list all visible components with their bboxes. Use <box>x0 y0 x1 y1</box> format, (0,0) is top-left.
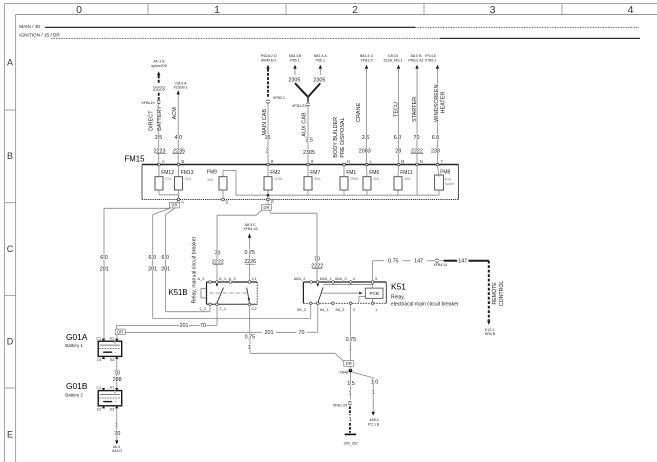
svg-text:Relay, manual circuit breaker: Relay, manual circuit breaker <box>191 236 197 303</box>
svg-text:STARTER: STARTER <box>412 97 418 122</box>
svg-text:288: 288 <box>113 377 122 383</box>
svg-text:H: H <box>347 159 350 164</box>
svg-text:21A: 21A <box>165 177 172 181</box>
svg-text:2: 2 <box>352 4 358 16</box>
svg-text:6.0: 6.0 <box>100 255 108 261</box>
svg-text:IGNITION / 15 / DR: IGNITION / 15 / DR <box>19 33 60 38</box>
svg-text:ACM: ACM <box>172 107 178 120</box>
svg-text:XFBc19: XFBc19 <box>141 101 154 105</box>
svg-text:FM13: FM13 <box>181 170 194 176</box>
svg-text:66_2: 66_2 <box>297 307 307 312</box>
svg-text:B: B <box>181 159 184 164</box>
svg-text:MAIN CAB: MAIN CAB <box>262 109 268 136</box>
svg-text:70: 70 <box>200 323 206 329</box>
svg-text:28: 28 <box>395 148 401 154</box>
svg-text:201: 201 <box>180 323 189 329</box>
svg-text:1: 1 <box>349 345 352 351</box>
svg-text:66_1: 66_1 <box>320 307 330 312</box>
svg-text:1: 1 <box>248 345 251 351</box>
svg-text:D1: D1 <box>97 358 102 362</box>
svg-text:200_267: 200_267 <box>344 441 358 445</box>
svg-text:K51: K51 <box>391 282 406 292</box>
svg-text:MAIN / 30: MAIN / 30 <box>19 24 40 29</box>
svg-text:HEATER: HEATER <box>441 92 447 114</box>
svg-text:PCB: PCB <box>369 291 378 296</box>
svg-text:XFB2:1: XFB2:1 <box>273 96 285 100</box>
svg-text:40A: 40A <box>445 177 452 181</box>
svg-text:66A_2: 66A_2 <box>294 276 306 281</box>
svg-text:200A: 200A <box>350 177 359 181</box>
svg-text:0.75: 0.75 <box>346 337 357 343</box>
svg-text:1.0: 1.0 <box>371 379 379 385</box>
svg-text:BATTERY: BATTERY <box>157 106 163 131</box>
svg-text:+: + <box>114 390 117 395</box>
svg-text:A: A <box>181 200 184 205</box>
svg-text:R: R <box>271 200 274 205</box>
svg-text:FM8: FM8 <box>440 170 450 176</box>
svg-text:TECU: TECU <box>393 102 399 117</box>
svg-text:BODY BUILDER: BODY BUILDER <box>333 117 339 158</box>
svg-text:16: 16 <box>265 135 271 141</box>
svg-text:FM6: FM6 <box>369 170 379 176</box>
svg-text:DR: DR <box>117 330 123 335</box>
svg-text:201: 201 <box>148 266 157 272</box>
svg-text:2305: 2305 <box>288 77 300 83</box>
svg-text:DR: DR <box>346 361 352 366</box>
svg-text:PRE2.A1: PRE2.A1 <box>408 58 423 62</box>
svg-text:A8.3 C: A8.3 C <box>245 223 257 227</box>
svg-text:FM12: FM12 <box>161 170 174 176</box>
svg-text:4: 4 <box>628 4 634 16</box>
svg-text:D: D <box>7 337 14 347</box>
svg-text:2: 2 <box>266 148 269 154</box>
svg-text:70: 70 <box>214 251 220 257</box>
svg-text:66_3: 66_3 <box>336 307 346 312</box>
svg-text:AUX CAB: AUX CAB <box>301 112 307 136</box>
svg-text:G01A: G01A <box>66 332 88 342</box>
svg-text:6.0: 6.0 <box>432 135 440 141</box>
svg-text:6A3 D: 6A3 D <box>112 449 122 453</box>
svg-text:1: 1 <box>349 417 352 423</box>
svg-text:C1: C1 <box>96 386 101 390</box>
svg-text:X765:1: X765:1 <box>425 58 437 62</box>
svg-text:XC899:1: XC899:1 <box>173 85 187 89</box>
svg-text:A1: A1 <box>110 336 115 340</box>
svg-text:201: 201 <box>161 266 170 272</box>
svg-text:P66.1: P66.1 <box>315 58 325 62</box>
svg-text:C2: C2 <box>252 306 258 311</box>
svg-text:G01B: G01B <box>66 381 88 391</box>
svg-text:66A_3: 66A_3 <box>335 276 347 281</box>
svg-text:0.75: 0.75 <box>388 258 399 264</box>
svg-text:0.75: 0.75 <box>245 250 256 256</box>
svg-text:XFB4:16: XFB4:16 <box>243 227 257 231</box>
svg-text:70: 70 <box>314 257 320 263</box>
svg-text:1: 1 <box>349 390 352 396</box>
svg-text:2.6: 2.6 <box>362 135 370 141</box>
svg-text:147: 147 <box>414 258 423 264</box>
svg-text:PC.1 B: PC.1 B <box>368 423 380 427</box>
svg-text:B1: B1 <box>110 358 115 362</box>
svg-text:DR: DR <box>171 203 177 208</box>
svg-text:2083: 2083 <box>359 148 371 154</box>
svg-text:splice209: splice209 <box>151 64 167 68</box>
svg-text:8WM.E/2: 8WM.E/2 <box>261 58 276 62</box>
svg-text:70: 70 <box>114 431 120 437</box>
svg-text:XFB4:14: XFB4:14 <box>433 263 447 267</box>
svg-text:201: 201 <box>265 330 274 336</box>
svg-text:FM11: FM11 <box>400 170 413 176</box>
svg-text:A_1: A_1 <box>219 276 227 281</box>
svg-text:D1: D1 <box>97 408 102 412</box>
svg-text:CRANE: CRANE <box>356 102 362 122</box>
svg-text:M: M <box>401 159 405 164</box>
svg-text:1: 1 <box>214 4 220 16</box>
svg-text:1.5: 1.5 <box>347 381 355 387</box>
svg-text:A1: A1 <box>110 386 115 390</box>
svg-text:D: D <box>226 200 229 205</box>
svg-text:E: E <box>7 430 13 440</box>
svg-text:FM2: FM2 <box>270 170 280 176</box>
svg-text:C1: C1 <box>96 337 101 341</box>
svg-text:X848: X848 <box>339 370 348 374</box>
svg-text:XFB1:24: XFB1:24 <box>333 403 347 407</box>
svg-text:3: 3 <box>490 4 496 16</box>
svg-text:313A_MS.1: 313A_MS.1 <box>383 58 402 62</box>
svg-text:YFB1:2: YFB1:2 <box>360 58 372 62</box>
svg-text:CONTROL: CONTROL <box>499 281 505 306</box>
svg-text:FM9: FM9 <box>207 170 217 176</box>
svg-text:FM7: FM7 <box>310 170 320 176</box>
svg-text:2_1: 2_1 <box>219 306 226 311</box>
svg-text:FM15: FM15 <box>125 155 146 164</box>
svg-text:XFB1:21: XFB1:21 <box>292 104 306 108</box>
svg-text:electriacal main circuit break: electriacal main circuit breaker <box>391 302 459 308</box>
svg-text:C: C <box>7 244 14 254</box>
svg-text:30A: 30A <box>373 177 380 181</box>
svg-text:FM1: FM1 <box>346 170 356 176</box>
svg-text:2223: 2223 <box>153 87 165 93</box>
svg-text:2305: 2305 <box>313 77 325 83</box>
svg-text:Spare: Spare <box>445 182 455 186</box>
svg-text:K51B: K51B <box>169 288 188 297</box>
svg-text:66A_1: 66A_1 <box>320 276 332 281</box>
svg-text:21A: 21A <box>185 177 192 181</box>
svg-text:2305: 2305 <box>303 150 315 156</box>
svg-text:N: N <box>420 159 423 164</box>
svg-text:WINDSCREEN: WINDSCREEN <box>434 84 440 122</box>
svg-text:4.0: 4.0 <box>175 135 183 141</box>
svg-text:0: 0 <box>76 4 82 16</box>
svg-text:6.0: 6.0 <box>394 135 402 141</box>
svg-text:C1: C1 <box>252 276 258 281</box>
svg-text:2_2: 2_2 <box>199 306 206 311</box>
svg-text:1: 1 <box>372 390 375 396</box>
svg-text:A: A <box>162 159 165 164</box>
svg-text:A58.4: A58.4 <box>369 418 378 422</box>
svg-text:Battery 2: Battery 2 <box>65 392 83 397</box>
svg-text:70: 70 <box>414 135 420 141</box>
svg-text:DIRECT: DIRECT <box>148 110 154 131</box>
svg-text:B1: B1 <box>110 408 115 412</box>
svg-text:A: A <box>7 58 13 68</box>
svg-text:30A: 30A <box>404 177 411 181</box>
svg-text:0.75: 0.75 <box>245 335 256 341</box>
svg-text:70: 70 <box>299 330 305 336</box>
svg-text:2.5: 2.5 <box>155 135 163 141</box>
svg-text:6.0: 6.0 <box>149 255 157 261</box>
svg-text:Relay,: Relay, <box>391 295 405 301</box>
svg-text:B: B <box>7 151 13 161</box>
svg-text:147: 147 <box>458 258 467 264</box>
svg-text:1: 1 <box>115 422 118 428</box>
svg-text:2.5: 2.5 <box>306 138 314 144</box>
svg-text:238: 238 <box>431 148 440 154</box>
svg-text:P65.1: P65.1 <box>290 58 300 62</box>
svg-text:Battery 1: Battery 1 <box>65 343 83 348</box>
svg-text:REMOTE: REMOTE <box>492 282 498 305</box>
svg-text:6.0: 6.0 <box>162 255 170 261</box>
svg-text:+: + <box>114 341 117 346</box>
svg-text:RR3 B: RR3 B <box>485 332 496 336</box>
svg-text:A_3: A_3 <box>229 276 237 281</box>
svg-text:115A: 115A <box>274 177 283 181</box>
svg-text:DR: DR <box>263 205 269 210</box>
svg-text:25A: 25A <box>314 177 321 181</box>
svg-text:70: 70 <box>114 370 120 376</box>
svg-text:40A: 40A <box>207 178 214 182</box>
svg-text:A_2: A_2 <box>197 276 205 281</box>
svg-text:201: 201 <box>100 266 109 272</box>
svg-text:PRE DISPOSAL: PRE DISPOSAL <box>340 117 346 157</box>
svg-text:K12.1: K12.1 <box>485 328 494 332</box>
